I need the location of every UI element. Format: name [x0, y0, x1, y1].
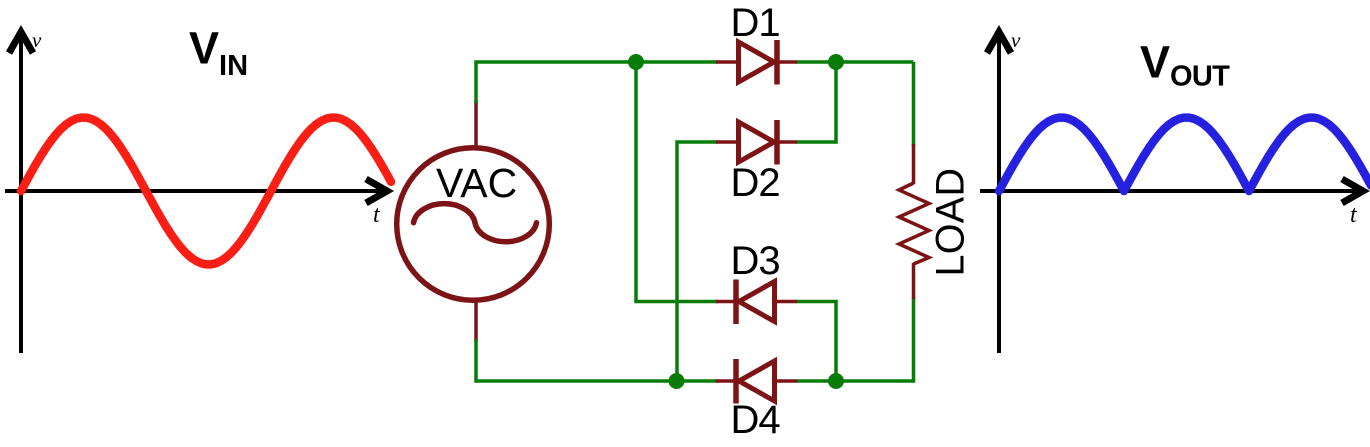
V_OUT graph vertical axis: [987, 32, 1011, 353]
node A junction dot: [628, 54, 644, 70]
node C junction dot: [669, 373, 685, 389]
svg-text:LOAD: LOAD: [929, 168, 973, 277]
wire: D3 anode to drop toward node D: [796, 302, 836, 382]
wire: VAC top to top rail: [476, 62, 636, 103]
svg-text:t: t: [373, 202, 381, 228]
AC source VAC circle: [397, 148, 550, 301]
VAC top lead (red part): [474, 101, 478, 147]
svg-text:D4: D4: [731, 398, 781, 442]
V_IN graph vertical axis: [9, 32, 33, 353]
wire: load top drop (green): [912, 62, 916, 146]
node B junction dot: [828, 54, 844, 70]
V_IN graph horizontal axis: [5, 179, 387, 203]
svg-text:v: v: [32, 28, 42, 52]
svg-text:D3: D3: [731, 239, 780, 283]
svg-text:D1: D1: [731, 1, 780, 45]
svg-text:VIN: VIN: [189, 23, 248, 82]
VAC sine symbol: [414, 204, 537, 242]
load resistor zigzag: [899, 183, 929, 264]
wire: D1 cathode to node B and on to load top corner: [796, 60, 914, 64]
diode D2: [716, 120, 797, 165]
wire: top rail from node A to D1 anode: [636, 60, 718, 64]
svg-text:t: t: [1350, 202, 1358, 228]
V_OUT graph horizontal axis: [980, 179, 1363, 203]
svg-text:v: v: [1011, 28, 1021, 52]
diode D4: [716, 359, 797, 404]
wire: D4 anode through node D to load bottom corner: [796, 297, 914, 381]
load resistor bottom lead (red): [912, 263, 916, 299]
svg-text:VOUT: VOUT: [1140, 37, 1230, 93]
load resistor top lead (red): [912, 144, 916, 184]
diode D1: [716, 40, 797, 85]
input sine waveform (red): [21, 118, 391, 265]
node D junction dot: [828, 373, 844, 389]
wire: node A down and right to D3 cathode: [636, 62, 718, 302]
svg-text:VAC: VAC: [436, 160, 517, 206]
wire: node B down to D2 cathode: [796, 62, 836, 142]
VAC bottom lead (red part): [474, 301, 478, 341]
svg-text:D2: D2: [731, 161, 780, 205]
wire: VAC bottom to bottom rail to D4 cathode: [476, 339, 718, 381]
wire: D2 anode left then down to bottom node C: [677, 142, 718, 381]
output rectified waveform (blue): [999, 118, 1370, 191]
diode D3: [716, 280, 797, 325]
